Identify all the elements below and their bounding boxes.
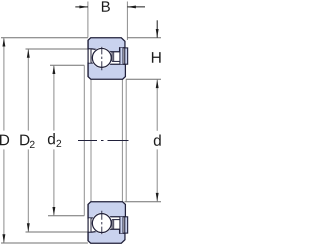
ball (bottom section): [92, 214, 111, 233]
dimension D line: [3, 38, 5, 130]
label d: [154, 135, 161, 146]
inner ring (bottom section): [88, 202, 125, 218]
ring face land (bottom section): [120, 217, 123, 233]
label d2: [48, 133, 55, 144]
dimension B extension line right: [126, 2, 128, 41]
label H: [152, 52, 161, 63]
dimension B arrow left: [75, 6, 88, 8]
dimension B extension line left: [87, 2, 89, 38]
projection line inner-ring face right: [125, 79, 127, 201]
outer ring (bottom section): [88, 229, 125, 243]
dimension H/d shared extension line: [126, 78, 161, 80]
ball centre line (top section): [101, 47, 103, 71]
dimension D2 extension line top: [26, 48, 88, 50]
left shield (bottom section): [89, 218, 91, 232]
dimension d extension line bottom: [125, 201, 162, 203]
label D2: [20, 135, 29, 146]
left shield (top section): [89, 49, 91, 63]
inner ring (top section): [88, 63, 125, 79]
projection line bore left: [90, 79, 92, 201]
right shield channel (bottom section): [111, 220, 113, 230]
dimension D2 extension line bottom: [26, 231, 88, 233]
dimension d2 extension line top: [50, 64, 84, 66]
ring face land (top section): [120, 48, 123, 64]
ball centre line (bottom section): [101, 210, 103, 234]
dimension H arrow top: [156, 20, 158, 37]
dimension d2 line: [53, 66, 55, 131]
projection line bore right: [121, 79, 123, 201]
dimension B arrow right: [127, 6, 145, 8]
projection line d2 recess left: [83, 65, 85, 215]
label B: [102, 1, 110, 11]
right shield channel (top section): [111, 52, 113, 62]
ball (top section): [92, 48, 111, 67]
right seal ring (top section): [125, 48, 128, 64]
dimension D extension line top: [1, 37, 88, 39]
raceway groove (top section): [91, 47, 112, 68]
dimension D2 line: [27, 49, 29, 130]
dimension d2 extension line bottom: [48, 215, 84, 217]
dimension D extension line bottom: [1, 242, 88, 244]
dimension H extension line top: [127, 37, 161, 39]
right seal ring (bottom section): [125, 217, 128, 233]
label D: [0, 135, 9, 146]
outer ring (top section): [88, 38, 125, 52]
dimension d line: [156, 80, 158, 131]
raceway groove (bottom section): [91, 213, 112, 234]
bearing axis centre line: [78, 140, 129, 142]
